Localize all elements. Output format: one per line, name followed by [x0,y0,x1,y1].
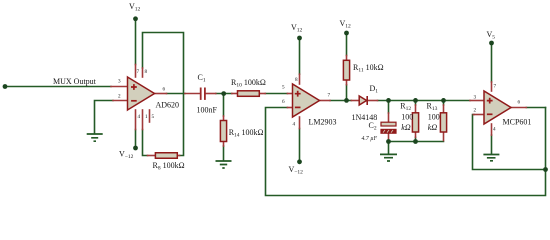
svg-text:4.7 µF: 4.7 µF [362,135,378,142]
svg-text:5: 5 [152,114,155,120]
svg-text:2: 2 [118,94,121,100]
svg-text:4: 4 [293,122,296,128]
svg-text:kΩ: kΩ [401,123,411,132]
svg-text:100nF: 100nF [197,105,218,114]
svg-text:5: 5 [282,85,285,91]
svg-text:6: 6 [518,100,521,106]
svg-text:7: 7 [328,93,331,99]
svg-text:LM2903: LM2903 [309,118,337,127]
svg-text:7: 7 [137,69,140,75]
svg-text:100: 100 [428,112,440,121]
svg-text:kΩ: kΩ [428,123,438,132]
svg-text:1: 1 [145,114,148,120]
svg-text:100: 100 [401,112,413,121]
svg-text:8: 8 [295,77,298,83]
svg-text:3: 3 [474,95,477,101]
svg-text:6: 6 [163,87,166,93]
svg-text:4: 4 [138,114,141,120]
svg-text:2: 2 [474,108,477,114]
svg-text:R8 100kΩ: R8 100kΩ [153,161,185,172]
svg-text:R14 100kΩ: R14 100kΩ [229,128,264,139]
svg-text:R10 100kΩ: R10 100kΩ [231,78,266,89]
svg-text:MUX Output: MUX Output [53,77,97,86]
svg-text:3: 3 [118,79,121,85]
svg-text:6: 6 [282,99,285,105]
svg-text:AD620: AD620 [156,101,180,110]
svg-text:4: 4 [493,127,496,133]
svg-text:7: 7 [494,84,497,90]
svg-text:8: 8 [145,69,148,75]
svg-text:R11 10kΩ: R11 10kΩ [353,63,384,74]
svg-text:MCP601: MCP601 [503,118,532,127]
